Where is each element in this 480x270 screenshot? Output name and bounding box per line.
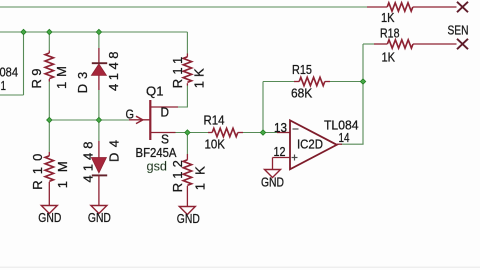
svg-text:13: 13 bbox=[274, 120, 287, 135]
svg-text:14: 14 bbox=[339, 130, 350, 145]
svg-text:R14: R14 bbox=[204, 113, 225, 128]
svg-text:gsd: gsd bbox=[147, 159, 168, 174]
svg-text:R18: R18 bbox=[380, 26, 400, 41]
svg-text:D: D bbox=[161, 105, 170, 120]
svg-text:G: G bbox=[126, 107, 135, 122]
svg-text:GND: GND bbox=[88, 210, 111, 225]
svg-text:GND: GND bbox=[261, 175, 284, 190]
svg-text:R10: R10 bbox=[30, 154, 45, 190]
svg-text:10K: 10K bbox=[205, 137, 226, 152]
svg-text:1: 1 bbox=[1, 78, 7, 93]
svg-text:R12: R12 bbox=[170, 160, 185, 192]
svg-text:68K: 68K bbox=[291, 86, 313, 101]
svg-text:12: 12 bbox=[274, 144, 286, 159]
svg-text:R15: R15 bbox=[292, 62, 312, 77]
svg-text:1K: 1K bbox=[381, 10, 395, 25]
svg-text:Q1: Q1 bbox=[146, 84, 164, 99]
svg-text:GND: GND bbox=[177, 211, 200, 226]
svg-text:SEN: SEN bbox=[448, 23, 469, 38]
svg-text:IC2D: IC2D bbox=[297, 136, 323, 151]
svg-text:1M: 1M bbox=[54, 66, 69, 89]
svg-text:R11: R11 bbox=[170, 57, 185, 89]
svg-text:GND: GND bbox=[38, 210, 61, 225]
svg-text:1K: 1K bbox=[382, 50, 396, 65]
